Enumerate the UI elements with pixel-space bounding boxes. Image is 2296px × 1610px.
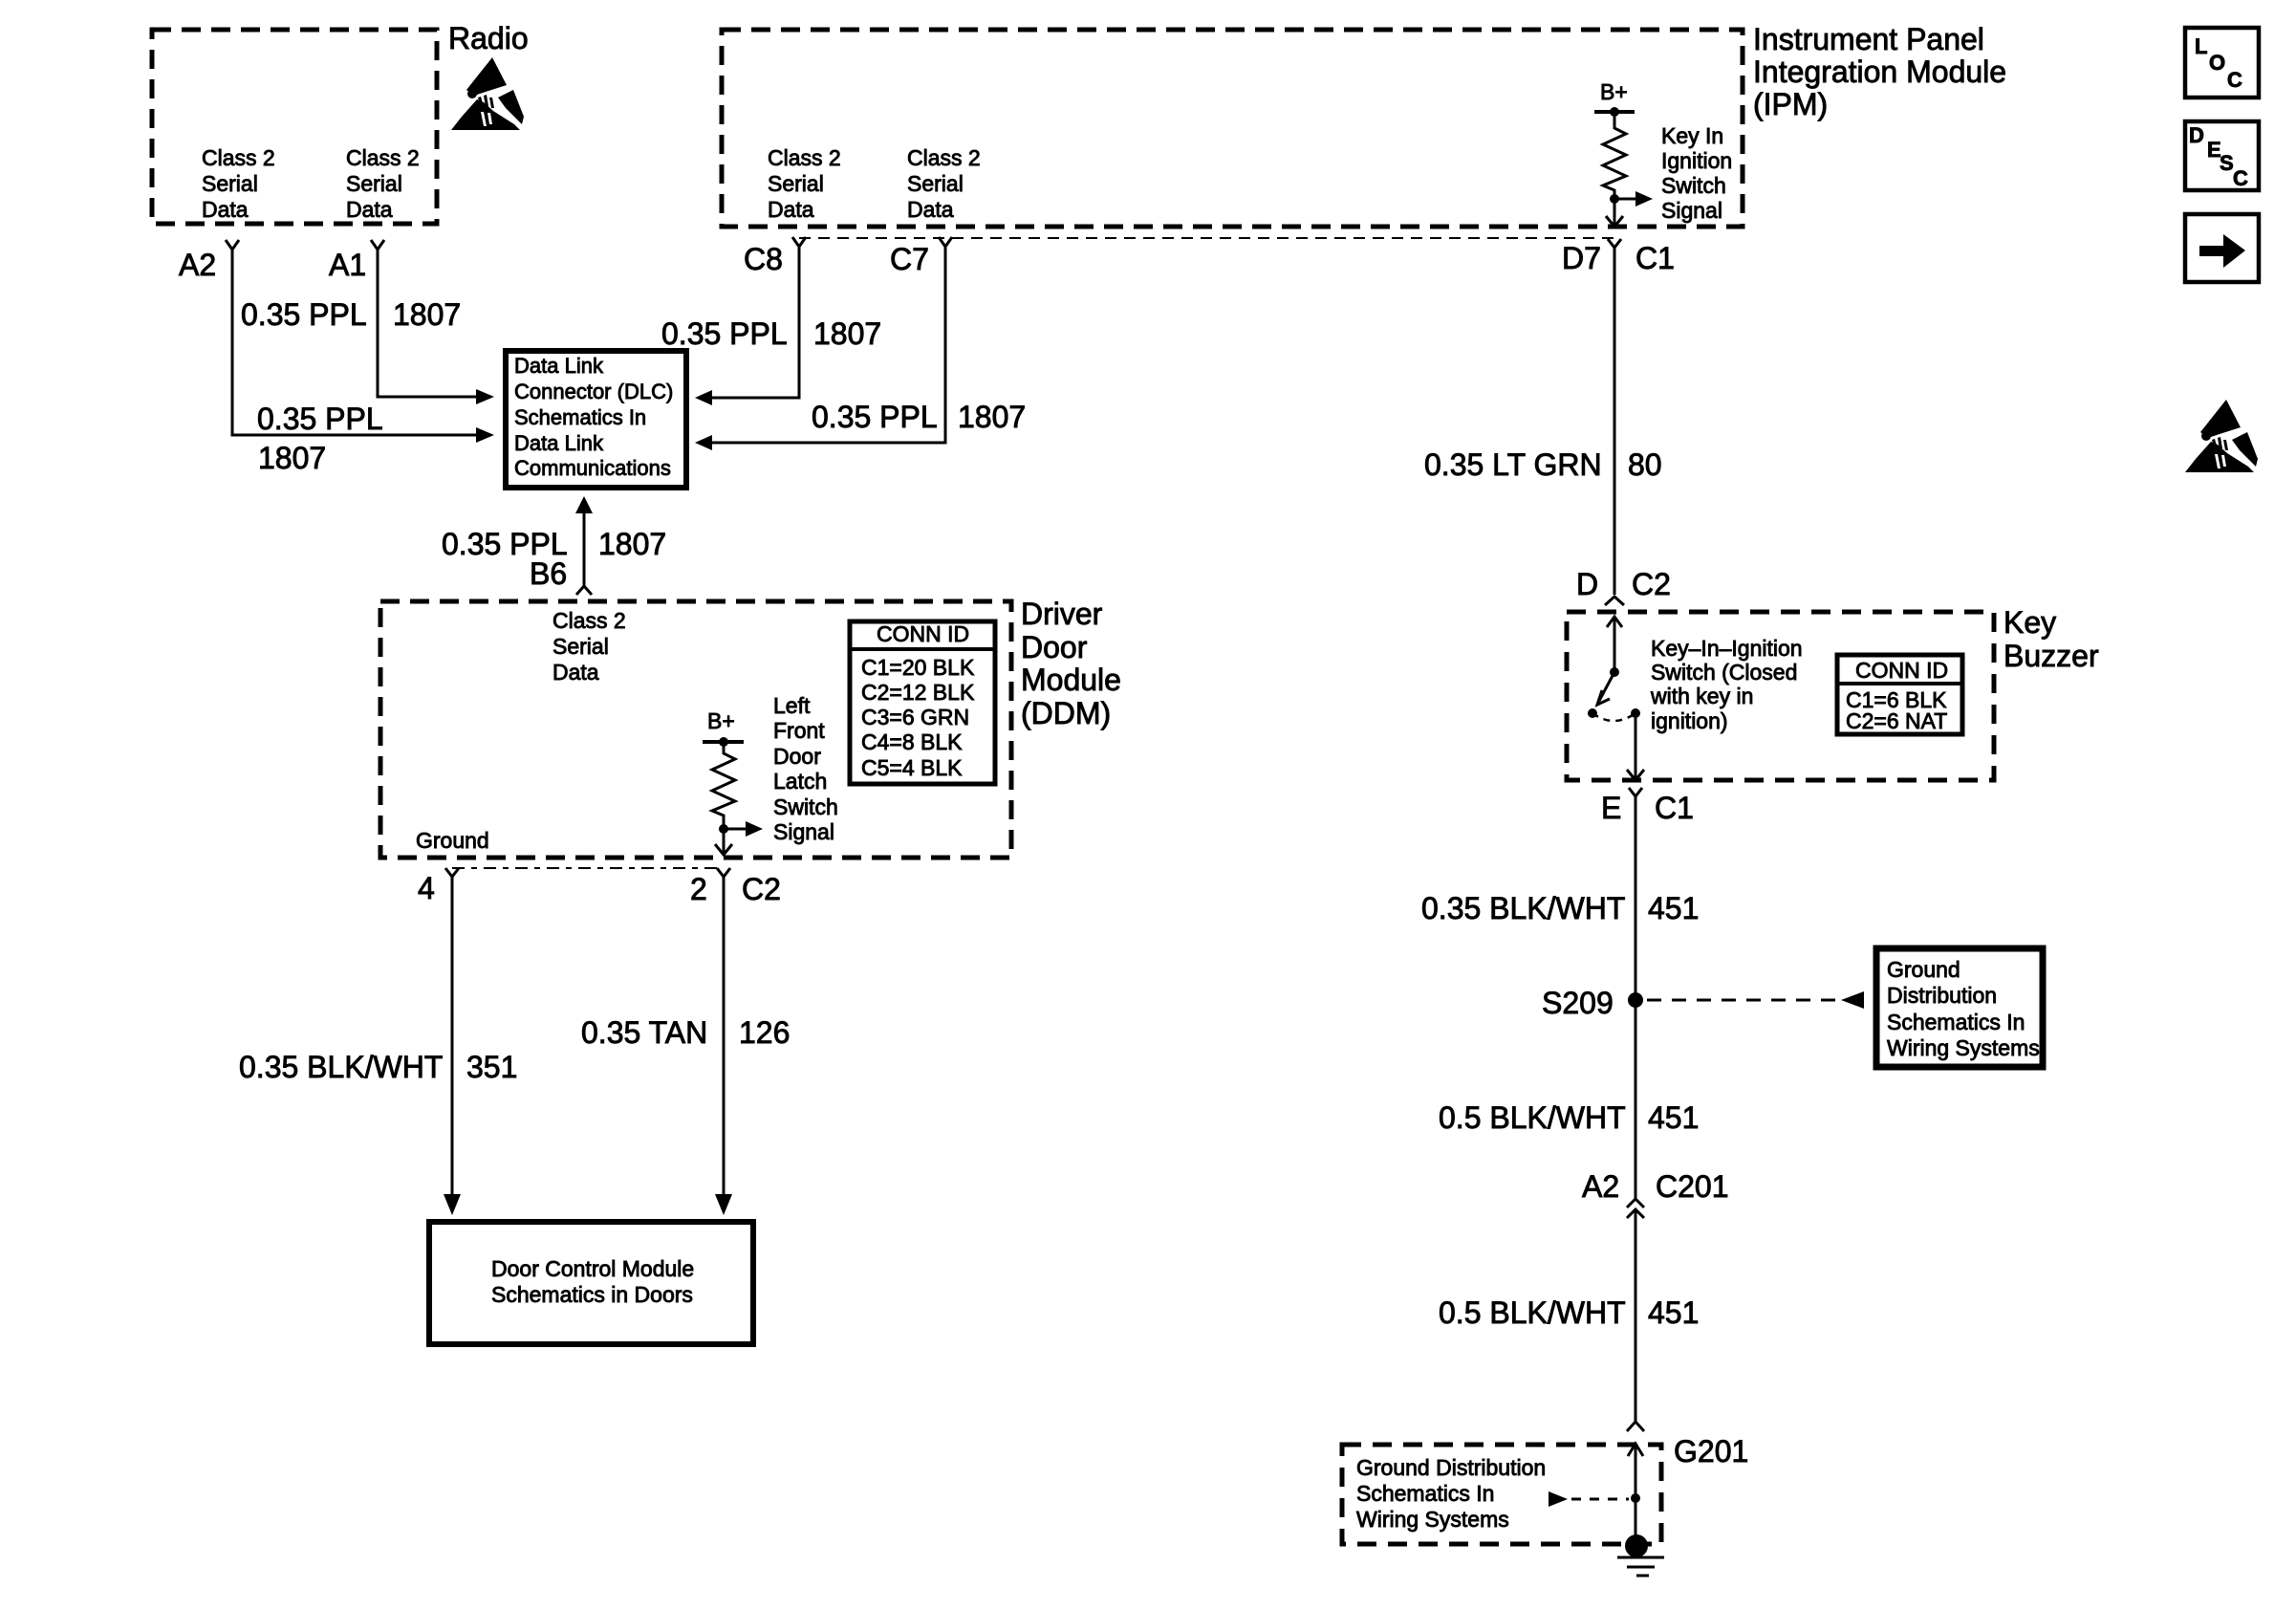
- splice S209 dot: [1628, 992, 1643, 1008]
- wire to switch common (key buzzer): [1614, 617, 1616, 672]
- svg-text:0.35 TAN: 0.35 TAN: [581, 1015, 707, 1050]
- svg-text:Integration Module: Integration Module: [1753, 54, 2006, 89]
- connector face thin dashed line (DDM C2 bottom): [452, 867, 724, 869]
- svg-text:126: 126: [739, 1015, 790, 1050]
- label Key Buzzer title: [2004, 605, 2099, 673]
- wire 0.35 BLK/WHT 451 (E to S209): [1635, 796, 1637, 1000]
- svg-text:ignition): ignition): [1651, 708, 1728, 733]
- svg-text:Data: Data: [552, 660, 599, 685]
- svg-text:Key: Key: [2004, 605, 2056, 640]
- label Left Front Door Latch Switch Signal: [773, 693, 838, 844]
- text Ground Distribution description (G201 box): [1356, 1455, 1546, 1532]
- svg-text:Switch: Switch: [773, 794, 838, 819]
- node Class 2 Serial Data (Radio pin A2): [202, 145, 275, 222]
- signal tap arrow (DDM): [724, 828, 747, 831]
- connector pin C8 (IPM): [792, 237, 806, 247]
- wire C8 to DLC (0.35 PPL 1807): [711, 247, 799, 398]
- svg-text:Data Link: Data Link: [514, 354, 604, 378]
- svg-text:C1: C1: [1655, 791, 1694, 825]
- svg-text:Serial: Serial: [768, 171, 824, 196]
- node Class 2 Serial Data (DDM pin B6): [552, 608, 626, 685]
- svg-text:A2: A2: [1582, 1169, 1619, 1204]
- connector pin 2 C2 (DDM): [717, 868, 730, 877]
- svg-text:C2=6 NAT: C2=6 NAT: [1846, 708, 1947, 733]
- power B+ bar (DDM): [703, 740, 744, 744]
- svg-text:1807: 1807: [813, 316, 881, 351]
- svg-text:C5=4 BLK: C5=4 BLK: [861, 755, 963, 780]
- svg-text:Radio: Radio: [448, 21, 529, 55]
- svg-text:Data Link: Data Link: [514, 431, 604, 455]
- open arrowhead down at key buzzer edge: [1627, 770, 1644, 780]
- svg-text:0.35 PPL: 0.35 PPL: [661, 316, 788, 351]
- ESD sensitive device symbol (Radio): [451, 57, 524, 130]
- svg-text:E: E: [1601, 791, 1621, 825]
- svg-text:Module: Module: [1021, 663, 1121, 697]
- svg-text:B+: B+: [707, 708, 735, 733]
- svg-text:S209: S209: [1542, 986, 1614, 1020]
- open arrowhead down at IPM edge: [1606, 216, 1623, 227]
- svg-text:Ground Distribution: Ground Distribution: [1356, 1455, 1546, 1480]
- svg-text:Serial: Serial: [346, 171, 402, 196]
- connector pin A1 (Radio): [371, 240, 384, 250]
- arrowhead into DLC (from C7): [695, 435, 712, 450]
- node Class 2 Serial Data (IPM pin C8): [768, 145, 841, 222]
- wire into ground box: [1635, 1443, 1637, 1546]
- arrowhead into DLC (from C8): [695, 390, 712, 405]
- inline chevron above G201: [1627, 1422, 1644, 1431]
- wire ground 0.35 BLK/WHT 351: [451, 877, 454, 1198]
- svg-text:Buzzer: Buzzer: [2004, 639, 2099, 673]
- arrowhead right (G201 internal ref): [1549, 1491, 1568, 1507]
- module Instrument Panel Integration Module dashed box: [722, 30, 1743, 227]
- wire B6 to DLC (0.35 PPL 1807): [583, 512, 586, 586]
- wire 0.35 TAN 126: [723, 877, 726, 1198]
- wire 0.5 BLK/WHT 451 (C201 to G201): [1635, 1209, 1637, 1422]
- dashed reference line from S209: [1647, 999, 1840, 1002]
- svg-text:0.35 BLK/WHT: 0.35 BLK/WHT: [239, 1050, 443, 1084]
- svg-text:Signal: Signal: [1661, 198, 1722, 223]
- svg-text:Door Control Module: Door Control Module: [491, 1256, 694, 1281]
- svg-text:Ground: Ground: [416, 828, 489, 853]
- text Door Control Module description: [491, 1256, 694, 1307]
- svg-text:D: D: [1576, 567, 1598, 601]
- wire C7 to DLC (0.35 PPL 1807): [711, 247, 945, 443]
- svg-text:Class 2: Class 2: [202, 145, 275, 170]
- svg-text:0.5 BLK/WHT: 0.5 BLK/WHT: [1439, 1100, 1626, 1135]
- svg-text:0.35 PPL: 0.35 PPL: [812, 400, 938, 434]
- icon forward arrow box: [2185, 214, 2259, 282]
- svg-text:0.35 BLK/WHT: 0.35 BLK/WHT: [1421, 891, 1625, 925]
- svg-text:Data: Data: [346, 197, 393, 222]
- svg-text:C4=8 BLK: C4=8 BLK: [861, 729, 963, 754]
- svg-text:2: 2: [690, 872, 707, 906]
- svg-text:Schematics In: Schematics In: [514, 405, 646, 429]
- svg-text:0.35 LT GRN: 0.35 LT GRN: [1424, 447, 1602, 482]
- wire 0.5 BLK/WHT 451 (S209 to C201): [1635, 1000, 1637, 1199]
- svg-text:Front: Front: [773, 718, 825, 743]
- connector pin E C1 (key buzzer): [1629, 788, 1642, 796]
- connector pin C7 (IPM): [939, 237, 952, 247]
- svg-text:Serial: Serial: [552, 634, 609, 659]
- svg-text:D7: D7: [1562, 241, 1601, 275]
- svg-text:80: 80: [1628, 447, 1662, 482]
- resistor R door latch switch pull-up (DDM): [712, 742, 735, 855]
- svg-text:Wiring Systems: Wiring Systems: [1887, 1035, 2040, 1060]
- switch left contact dot: [1588, 708, 1597, 718]
- arrowhead into Door Control Module (from 4): [444, 1194, 461, 1215]
- junction dot below resistor (DDM): [719, 824, 728, 834]
- box Door Control Module: [429, 1222, 753, 1344]
- svg-text:Ignition: Ignition: [1661, 148, 1732, 173]
- connector pin B6 (DDM) inverted Y: [576, 586, 592, 595]
- junction dot at B+ (DDM): [719, 737, 728, 747]
- open arrowhead down at DDM edge: [715, 844, 732, 855]
- svg-text:451: 451: [1648, 1295, 1699, 1330]
- junction dot on ground wire: [1631, 1493, 1640, 1503]
- svg-text:C201: C201: [1656, 1169, 1729, 1204]
- arrowhead into DLC (from A2): [476, 427, 494, 443]
- module Radio dashed box: [152, 30, 437, 224]
- svg-text:Schematics In: Schematics In: [1356, 1481, 1494, 1506]
- power B+ bar (IPM): [1594, 110, 1635, 114]
- svg-text:Schematics In: Schematics In: [1887, 1010, 2025, 1034]
- wire 0.35 LT GRN 80 (D7 to key buzzer D): [1614, 248, 1616, 595]
- module Key Buzzer dashed box: [1567, 612, 1994, 780]
- switch arm (key-in-ignition): [1599, 672, 1614, 701]
- box Ground Distribution Schematics (right): [1876, 948, 2043, 1067]
- svg-text:Signal: Signal: [773, 819, 834, 844]
- wire A1 to DLC (0.35 PPL 1807): [378, 250, 478, 397]
- svg-text:0.35 PPL: 0.35 PPL: [257, 402, 383, 436]
- svg-text:Connector (DLC): Connector (DLC): [514, 380, 673, 403]
- connector face thin dashed line (IPM C1 bottom): [799, 237, 1614, 239]
- svg-text:C7: C7: [890, 242, 929, 276]
- svg-text:Class 2: Class 2: [907, 145, 981, 170]
- svg-text:B6: B6: [530, 556, 567, 591]
- switch dashed travel arc: [1592, 713, 1635, 721]
- svg-text:Serial: Serial: [202, 171, 258, 196]
- text DLC description: [514, 354, 673, 480]
- svg-text:Switch: Switch: [1661, 173, 1726, 198]
- svg-text:451: 451: [1648, 1100, 1699, 1135]
- svg-text:Data: Data: [768, 197, 814, 222]
- svg-text:Wiring Systems: Wiring Systems: [1356, 1507, 1509, 1532]
- ground symbol G201: [1617, 1557, 1664, 1576]
- resistor R key-in-ignition pull-up (IPM): [1603, 112, 1626, 227]
- svg-text:Ground: Ground: [1887, 957, 1960, 982]
- svg-text:C2: C2: [742, 872, 781, 906]
- arrowhead toward S209 (ground distribution ref): [1841, 991, 1864, 1009]
- svg-text:A2: A2: [179, 248, 216, 282]
- svg-text:Latch: Latch: [773, 769, 827, 794]
- svg-text:C3=6 GRN: C3=6 GRN: [861, 705, 969, 729]
- svg-text:Class 2: Class 2: [552, 608, 626, 633]
- open arrowhead up at G201 box edge: [1628, 1444, 1643, 1456]
- table CONN ID (key buzzer): [1837, 655, 1962, 734]
- svg-text:S: S: [2220, 151, 2234, 175]
- svg-text:Instrument Panel: Instrument Panel: [1753, 22, 1984, 56]
- svg-text:0.5 BLK/WHT: 0.5 BLK/WHT: [1439, 1295, 1626, 1330]
- svg-text:O: O: [2209, 51, 2225, 75]
- ground G201 terminal dot: [1625, 1534, 1648, 1557]
- wire A2 to DLC (0.35 PPL 1807): [232, 250, 478, 435]
- arrowhead signal tap (DDM): [746, 821, 763, 837]
- connector pin A2 (Radio): [226, 240, 239, 250]
- svg-text:C2: C2: [1632, 567, 1671, 601]
- svg-text:Door: Door: [1021, 630, 1088, 664]
- arrowhead into Door Control Module (from 2): [715, 1194, 732, 1215]
- svg-text:(DDM): (DDM): [1021, 696, 1111, 730]
- svg-text:351: 351: [466, 1050, 517, 1084]
- svg-text:451: 451: [1648, 891, 1699, 925]
- svg-text:1807: 1807: [393, 297, 461, 332]
- svg-text:with key in: with key in: [1650, 684, 1753, 708]
- svg-text:C1: C1: [1635, 241, 1675, 275]
- label IPM title: [1753, 22, 2006, 121]
- label Key-In-Ignition Switch: [1650, 636, 1803, 733]
- svg-text:1807: 1807: [958, 400, 1026, 434]
- ESD sensitive device symbol (right margin): [2185, 400, 2258, 472]
- svg-text:A1: A1: [329, 248, 366, 282]
- icon LOC box: [2185, 28, 2259, 98]
- svg-text:CONN ID: CONN ID: [877, 621, 969, 646]
- svg-text:Left: Left: [773, 693, 811, 718]
- svg-text:Class 2: Class 2: [768, 145, 841, 170]
- node Class 2 Serial Data (IPM pin C7): [907, 145, 981, 222]
- label Key In Ignition Switch Signal: [1661, 123, 1732, 223]
- svg-text:C1=20 BLK: C1=20 BLK: [861, 655, 975, 680]
- svg-text:C: C: [2233, 166, 2248, 190]
- svg-text:Schematics in Doors: Schematics in Doors: [491, 1282, 693, 1307]
- box Data Link Connector (DLC): [506, 351, 686, 488]
- arrowhead signal tap (IPM): [1635, 191, 1653, 207]
- svg-text:Class 2: Class 2: [346, 145, 420, 170]
- label DDM title: [1021, 597, 1121, 730]
- svg-text:C8: C8: [744, 242, 783, 276]
- connector chevron D C2 (key buzzer): [1605, 597, 1624, 605]
- module Ground Distribution dashed box (G201): [1342, 1445, 1661, 1544]
- svg-text:Switch (Closed: Switch (Closed: [1651, 660, 1797, 685]
- svg-text:Serial: Serial: [907, 171, 964, 196]
- svg-text:C2=12 BLK: C2=12 BLK: [861, 680, 975, 705]
- node Class 2 Serial Data (Radio pin A1): [346, 145, 420, 222]
- signal tap arrow (IPM): [1614, 198, 1636, 201]
- junction dot at B+ (IPM): [1610, 107, 1619, 117]
- svg-text:B+: B+: [1600, 79, 1628, 104]
- arrowhead up into DLC (from B6): [575, 496, 593, 513]
- module Driver Door Module dashed box: [380, 601, 1011, 858]
- svg-text:Key–In–Ignition: Key–In–Ignition: [1651, 636, 1803, 661]
- svg-text:Data: Data: [907, 197, 954, 222]
- svg-text:L: L: [2195, 34, 2207, 58]
- dashed reference line to ground wire: [1571, 1498, 1629, 1501]
- open arrowhead up inside key buzzer: [1607, 617, 1622, 627]
- svg-text:Driver: Driver: [1021, 597, 1103, 631]
- wire switch to pin E: [1635, 713, 1637, 780]
- connector pin D7 C1 (IPM): [1608, 239, 1621, 248]
- switch common contact dot: [1610, 667, 1619, 677]
- junction dot below resistor (IPM): [1610, 194, 1619, 204]
- svg-text:(IPM): (IPM): [1753, 87, 1828, 121]
- table CONN ID (DDM): [850, 621, 995, 784]
- switch right contact dot: [1631, 708, 1640, 718]
- svg-text:4: 4: [418, 871, 435, 905]
- svg-text:Key In: Key In: [1661, 123, 1723, 148]
- svg-text:Distribution: Distribution: [1887, 983, 1997, 1008]
- svg-text:1807: 1807: [258, 441, 326, 475]
- svg-text:D: D: [2189, 123, 2204, 147]
- connector pin 4 (DDM): [445, 868, 459, 877]
- arrowhead into DLC (from A1): [476, 389, 494, 404]
- svg-text:G201: G201: [1674, 1434, 1748, 1469]
- svg-text:Door: Door: [773, 744, 821, 769]
- open arrowhead on switch arm: [1597, 690, 1610, 705]
- svg-text:Communications: Communications: [514, 456, 671, 480]
- svg-text:Data: Data: [202, 197, 249, 222]
- svg-text:CONN ID: CONN ID: [1855, 658, 1948, 683]
- icon DESC box: [2185, 121, 2259, 190]
- svg-text:C: C: [2227, 68, 2242, 92]
- text Ground Distribution description (right box): [1887, 957, 2040, 1060]
- svg-text:0.35 PPL: 0.35 PPL: [241, 297, 367, 332]
- inline connector C201 double chevron: [1627, 1199, 1644, 1218]
- svg-text:1807: 1807: [598, 527, 666, 561]
